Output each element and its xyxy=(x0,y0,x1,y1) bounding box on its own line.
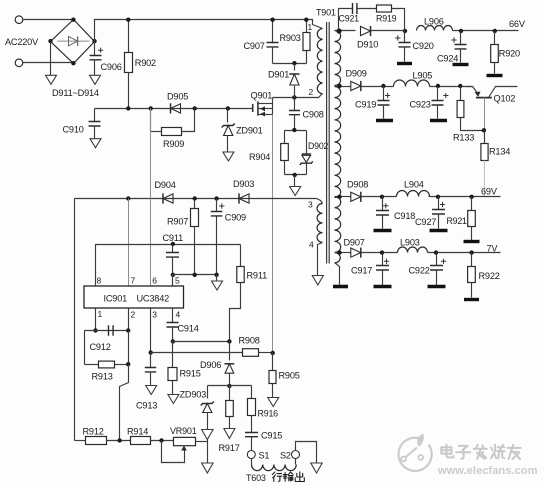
capacitor C912 xyxy=(109,325,114,336)
svg-text:4: 4 xyxy=(176,310,181,320)
wire xyxy=(362,86,394,88)
svg-text:C910: C910 xyxy=(63,124,84,134)
ground xyxy=(333,285,348,289)
wire xyxy=(74,199,76,441)
wire xyxy=(107,440,131,442)
svg-text:D905: D905 xyxy=(167,92,188,102)
resistor R922 xyxy=(471,253,473,267)
svg-text:3: 3 xyxy=(152,310,157,320)
wire xyxy=(453,30,519,32)
wire xyxy=(95,20,323,42)
svg-text:R912: R912 xyxy=(83,427,104,437)
capacitor C911 xyxy=(172,245,174,253)
svg-text:8: 8 xyxy=(97,276,102,286)
op-amp U IC901 UC3842 xyxy=(84,286,184,308)
diode D905 xyxy=(171,104,181,113)
ground xyxy=(453,63,469,66)
wire xyxy=(429,196,501,198)
svg-text:C922: C922 xyxy=(409,265,430,275)
inductor L904 xyxy=(397,191,430,197)
svg-text:D903: D903 xyxy=(233,179,254,189)
svg-text:C923: C923 xyxy=(410,100,431,110)
wire xyxy=(285,174,307,176)
wire xyxy=(128,199,130,287)
svg-text:L904: L904 xyxy=(404,179,424,189)
wire xyxy=(85,330,129,332)
svg-text:D911~D914: D911~D914 xyxy=(52,88,99,98)
svg-text:R914: R914 xyxy=(127,427,148,437)
wire xyxy=(318,243,323,276)
node AC input terminal top xyxy=(15,16,23,24)
capacitor C914 xyxy=(167,323,179,328)
svg-text:C917: C917 xyxy=(351,265,372,275)
winding T901 primary 3-4 xyxy=(317,204,322,243)
capacitor C910 xyxy=(94,109,96,122)
wire xyxy=(128,331,130,365)
resistor R902 xyxy=(128,20,130,53)
node S1 xyxy=(247,451,255,459)
potentiometer VR901 xyxy=(174,437,196,445)
wire xyxy=(75,198,317,200)
svg-text:D904: D904 xyxy=(155,180,176,190)
svg-text:Q102: Q102 xyxy=(494,94,516,104)
resistor R920 xyxy=(494,31,496,45)
svg-text:Q901: Q901 xyxy=(251,90,273,100)
capacitor C906 xyxy=(94,42,96,56)
wire xyxy=(335,196,351,198)
svg-text:7: 7 xyxy=(131,276,136,286)
wire xyxy=(272,98,274,115)
svg-text:D909: D909 xyxy=(346,69,367,79)
svg-text:7V: 7V xyxy=(487,243,499,253)
svg-text:C912: C912 xyxy=(90,342,111,352)
capacitor C909 xyxy=(216,199,218,212)
svg-text:L905: L905 xyxy=(413,70,433,80)
wire xyxy=(208,385,252,387)
svg-text:R904: R904 xyxy=(249,152,270,162)
diode D903 xyxy=(239,194,249,203)
svg-text:C914: C914 xyxy=(178,324,199,334)
wire xyxy=(150,309,152,353)
svg-text:R911: R911 xyxy=(247,271,268,281)
wire xyxy=(172,275,174,287)
wire xyxy=(84,331,86,365)
wire xyxy=(151,352,243,354)
ground xyxy=(207,440,209,463)
svg-text:IC901: IC901 xyxy=(104,294,128,304)
wire xyxy=(273,94,323,98)
diode D904 xyxy=(163,194,173,203)
resistor R911 xyxy=(240,245,242,267)
zener ZD901 xyxy=(227,109,229,123)
wire xyxy=(95,108,253,110)
wire xyxy=(23,19,74,21)
ground xyxy=(311,463,322,473)
wire xyxy=(335,263,340,285)
capacitor C915 xyxy=(245,433,258,437)
resistor R915 xyxy=(172,342,174,368)
svg-text:R916: R916 xyxy=(258,409,279,419)
logo elecfans xyxy=(399,434,432,471)
wire xyxy=(75,440,86,442)
ground xyxy=(216,275,218,281)
resistor R917 xyxy=(229,386,231,401)
wire xyxy=(196,441,208,443)
capacitor C922 xyxy=(436,253,438,266)
inductor L903 xyxy=(398,247,428,253)
wire xyxy=(229,342,231,361)
wire xyxy=(23,62,74,64)
diode D906 xyxy=(225,364,234,373)
transistor Q102 xyxy=(467,87,479,95)
winding T901 secondary xyxy=(335,31,341,86)
transistor Q901 xyxy=(252,104,254,112)
ground xyxy=(430,119,447,122)
svg-text:R909: R909 xyxy=(163,139,184,149)
ground xyxy=(374,285,392,288)
svg-text:2: 2 xyxy=(309,87,314,97)
svg-text:C906: C906 xyxy=(101,62,122,72)
svg-text:C913: C913 xyxy=(136,401,157,411)
ground xyxy=(376,119,393,122)
capacitor C917 xyxy=(382,253,384,266)
wire xyxy=(428,252,501,254)
resistor R903 xyxy=(306,20,308,33)
wire xyxy=(362,252,398,254)
wire xyxy=(371,30,405,32)
ground xyxy=(397,62,412,65)
winding T603 xyxy=(252,465,297,471)
svg-text:R903: R903 xyxy=(280,33,301,43)
wire xyxy=(362,196,397,198)
svg-text:UC3842: UC3842 xyxy=(137,294,170,304)
wire xyxy=(285,130,307,132)
svg-text:ZD903: ZD903 xyxy=(180,390,207,400)
svg-text:D906: D906 xyxy=(200,360,221,370)
label 行输出 xyxy=(272,472,282,482)
svg-text:C921: C921 xyxy=(339,13,360,23)
ground xyxy=(312,276,323,286)
resistor R908 xyxy=(243,349,259,357)
svg-text:D907: D907 xyxy=(344,237,365,247)
svg-text:R905: R905 xyxy=(279,371,300,381)
node S2 xyxy=(292,451,300,459)
svg-text:S2: S2 xyxy=(280,451,291,461)
capacitor C908 xyxy=(294,98,296,111)
svg-text:C920: C920 xyxy=(413,41,434,51)
svg-text:D901: D901 xyxy=(268,70,289,80)
inductor L906 xyxy=(417,26,453,31)
ground xyxy=(430,229,448,232)
svg-text:R922: R922 xyxy=(479,271,500,281)
capacitor C924 xyxy=(460,31,462,45)
capacitor C927 xyxy=(438,197,440,210)
svg-text:5: 5 xyxy=(175,276,180,286)
resistor R919 xyxy=(377,5,392,12)
svg-text:R913: R913 xyxy=(92,372,113,382)
wire xyxy=(128,309,130,331)
svg-text:C918: C918 xyxy=(394,211,415,221)
svg-text:3: 3 xyxy=(308,199,313,209)
zener ZD903 xyxy=(207,386,209,399)
ground xyxy=(487,74,503,77)
svg-text:D902: D902 xyxy=(308,141,329,151)
svg-text:R921: R921 xyxy=(447,216,468,226)
capacitor C919 xyxy=(383,87,385,101)
svg-text:4: 4 xyxy=(309,239,314,249)
resistor R921 xyxy=(471,197,473,211)
wire xyxy=(335,86,351,88)
wire xyxy=(173,341,230,343)
wire xyxy=(95,309,97,331)
diode D910 xyxy=(361,26,371,35)
svg-text:L906: L906 xyxy=(424,16,444,26)
svg-text:R919: R919 xyxy=(376,13,397,23)
svg-text:D908: D908 xyxy=(347,179,368,189)
label 电子发烧友 xyxy=(441,445,453,458)
svg-text:R134: R134 xyxy=(489,147,510,157)
ground xyxy=(428,285,446,288)
diode D907 xyxy=(351,248,361,257)
svg-text:R133: R133 xyxy=(453,133,474,143)
svg-text:VR901: VR901 xyxy=(170,426,197,436)
svg-text:R915: R915 xyxy=(180,369,201,379)
wire xyxy=(150,109,152,287)
resistor R909 xyxy=(150,109,152,132)
resistor R916 xyxy=(251,386,253,399)
svg-text:1: 1 xyxy=(98,309,103,319)
wire xyxy=(50,42,52,63)
svg-text:R907: R907 xyxy=(167,217,188,227)
svg-text:69V: 69V xyxy=(481,186,498,196)
wire xyxy=(430,86,473,88)
diode D901 xyxy=(294,64,296,71)
wire xyxy=(358,8,377,10)
svg-text:6: 6 xyxy=(152,276,157,286)
svg-text:C915: C915 xyxy=(261,431,282,441)
svg-text:1: 1 xyxy=(308,22,313,32)
ground xyxy=(464,298,479,301)
ground xyxy=(50,63,52,76)
resistor R133 xyxy=(460,87,462,101)
resistor R904 xyxy=(284,131,286,144)
svg-text:C907: C907 xyxy=(244,41,265,51)
wire xyxy=(335,252,351,254)
wire xyxy=(96,245,241,287)
winding T901 primary 1-2 xyxy=(317,29,322,94)
svg-text:S1: S1 xyxy=(259,451,270,461)
capacitor C907 xyxy=(272,20,274,43)
ground xyxy=(294,175,296,187)
snubber C921 R919 wire xyxy=(339,9,353,31)
resistor R907 xyxy=(194,199,196,209)
wire xyxy=(296,442,317,463)
ground xyxy=(374,229,392,232)
svg-text:R920: R920 xyxy=(499,49,520,59)
svg-text:ZD901: ZD901 xyxy=(236,126,263,136)
svg-text:C911: C911 xyxy=(163,233,184,243)
wire xyxy=(392,9,405,31)
diode D902 xyxy=(306,131,308,155)
wire xyxy=(151,440,174,442)
svg-text:AC220V: AC220V xyxy=(5,37,39,47)
capacitor C918 xyxy=(382,197,384,211)
resistor R905 xyxy=(272,353,274,371)
resistor R134 xyxy=(484,131,486,144)
core T901 xyxy=(327,22,330,264)
wire xyxy=(172,309,174,323)
svg-text:2: 2 xyxy=(131,310,136,320)
svg-text:C924: C924 xyxy=(437,53,458,63)
bridge rectifier D911~D914 xyxy=(51,20,95,64)
svg-text:C909: C909 xyxy=(225,213,246,223)
resistor R913 xyxy=(85,364,99,366)
capacitor C913 xyxy=(150,353,152,368)
wire xyxy=(272,115,274,353)
svg-text:D910: D910 xyxy=(357,40,378,50)
svg-text:C919: C919 xyxy=(355,100,376,110)
diode D908 xyxy=(351,192,361,201)
svg-text:R917: R917 xyxy=(219,443,240,453)
svg-text:T901: T901 xyxy=(316,8,336,18)
ground xyxy=(464,240,480,243)
wire xyxy=(120,365,129,441)
wire xyxy=(273,63,307,65)
wire xyxy=(484,161,486,197)
svg-text:L903: L903 xyxy=(400,237,420,247)
svg-text:T603: T603 xyxy=(246,473,266,483)
capacitor C921 xyxy=(353,3,357,14)
svg-text:R908: R908 xyxy=(239,336,260,346)
svg-text:66V: 66V xyxy=(509,19,526,29)
resistor R914 xyxy=(131,437,151,445)
inductor L905 xyxy=(394,80,430,87)
capacitor C920 xyxy=(404,31,406,43)
node AC input terminal bottom xyxy=(15,59,23,67)
wire xyxy=(317,199,323,204)
wire xyxy=(335,30,356,32)
resistor R912 xyxy=(86,437,107,445)
capacitor C923 xyxy=(437,87,439,101)
svg-text:R902: R902 xyxy=(135,58,156,68)
svg-text:www.elecfans.com: www.elecfans.com xyxy=(437,465,538,477)
wire xyxy=(173,274,217,276)
svg-text:C908: C908 xyxy=(303,109,324,119)
svg-text:C927: C927 xyxy=(415,217,436,227)
diode D909 xyxy=(351,81,361,90)
